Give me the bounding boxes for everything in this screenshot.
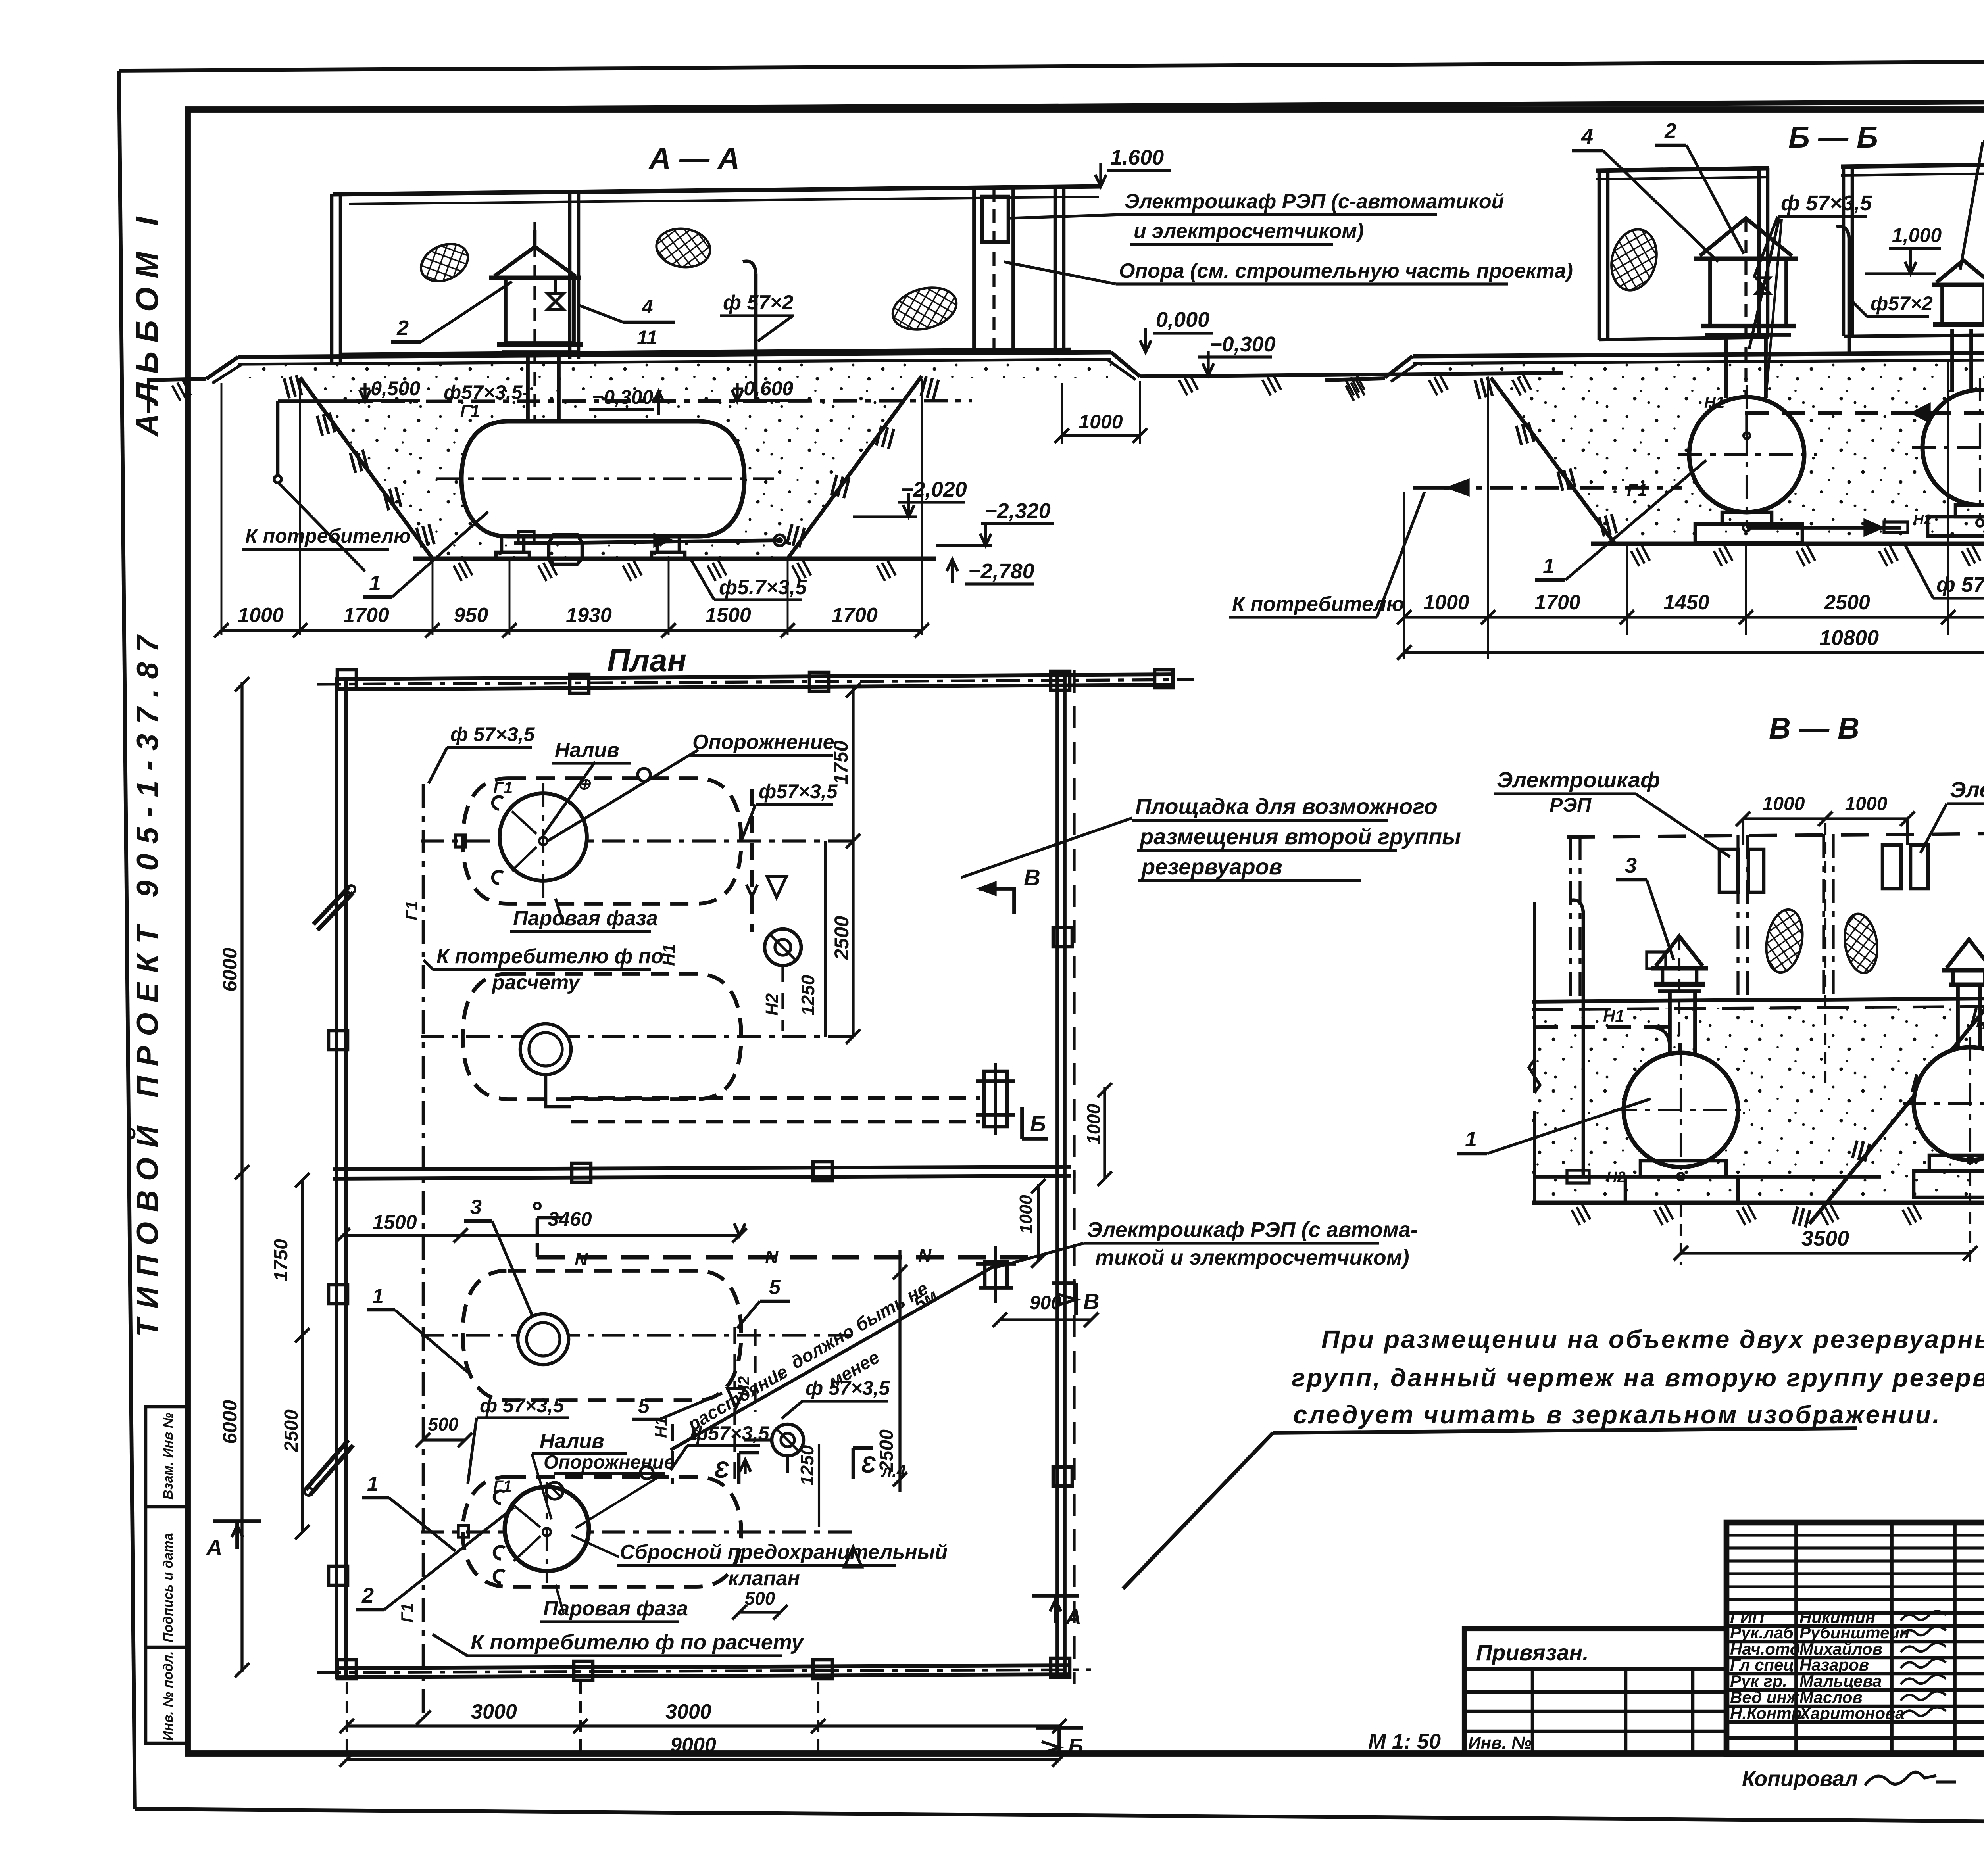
plan tank 1 capsule xyxy=(463,778,741,904)
plan fence top xyxy=(335,674,1173,679)
plan dim 1000 right lower xyxy=(1037,1184,1040,1262)
B-B flange left xyxy=(1701,324,1796,328)
svg-text:11: 11 xyxy=(637,326,657,349)
B-B pipe H2 xyxy=(1747,526,1901,530)
svg-text:М 1: 50: М 1: 50 xyxy=(1368,1730,1441,1753)
svg-text:3000: 3000 xyxy=(665,1700,711,1723)
svg-text:Паровая фаза: Паровая фаза xyxy=(543,1597,688,1620)
svg-text:3: 3 xyxy=(470,1196,482,1219)
B-B pad left bevel xyxy=(1385,356,1413,378)
A-A ground pad top xyxy=(238,352,1111,357)
svg-text:1: 1 xyxy=(372,1285,384,1308)
svg-text:1: 1 xyxy=(1543,554,1555,578)
svg-text:−2,320: −2,320 xyxy=(984,499,1051,523)
plan fence posts xyxy=(570,674,589,693)
svg-text:следует читать в зеркальном и: следует читать в зеркальном изображении. xyxy=(1293,1400,1941,1429)
svg-text:Рук.лаб: Рук.лаб xyxy=(1730,1623,1794,1642)
svg-text:Инв. № подл.: Инв. № подл. xyxy=(161,1651,176,1741)
svg-text:В — В: В — В xyxy=(1769,712,1859,745)
svg-text:Мальцева: Мальцева xyxy=(1799,1672,1882,1690)
A-A fence top rail xyxy=(333,186,1101,194)
svg-text:Г1: Г1 xyxy=(493,778,513,797)
A-A pit drain pipe xyxy=(514,540,782,543)
A-A vent hatch cap xyxy=(494,247,575,276)
plan H2 pipe lower vertical xyxy=(754,1329,756,1412)
svg-text:2: 2 xyxy=(396,316,409,340)
svg-text:ф57×3,5-: ф57×3,5- xyxy=(444,381,529,403)
svg-text:2: 2 xyxy=(1664,119,1676,143)
svg-text:Н2: Н2 xyxy=(1913,511,1932,528)
plan dim 1000 fence right xyxy=(1103,1087,1106,1179)
B-B fence blob left xyxy=(1605,224,1663,295)
A-A wide support post xyxy=(972,188,976,354)
plan tank4 nozzles xyxy=(543,1528,551,1536)
svg-text:Электрошкаф: Электрошкаф xyxy=(1497,767,1660,792)
B-B flange right xyxy=(1933,322,1984,327)
A-A excavation right slope xyxy=(788,376,922,559)
B-B left fence xyxy=(1596,168,1769,171)
svg-text:1700: 1700 xyxy=(343,604,389,627)
B-B neck right xyxy=(1950,329,1954,392)
V-V tank 1 xyxy=(1624,1053,1738,1167)
A-A tank 1 capsule xyxy=(461,421,744,536)
svg-text:4: 4 xyxy=(1581,125,1593,148)
svg-text:К потребителю ф по: К потребителю ф по xyxy=(436,945,663,968)
B-B ground pad xyxy=(1413,351,1984,356)
svg-text:ф57×3,5: ф57×3,5 xyxy=(759,780,838,803)
title block privyazan table xyxy=(1464,1629,1726,1753)
svg-text:−2,020: −2,020 xyxy=(901,478,967,501)
A-A pipe G1 xyxy=(278,399,373,403)
B-B neck left xyxy=(1724,335,1728,398)
svg-text:Налив: Налив xyxy=(540,1430,604,1453)
plan dim 1750 right xyxy=(852,688,854,841)
A-A tank neck xyxy=(526,352,530,424)
svg-text:резервуаров: резервуаров xyxy=(1141,854,1282,879)
svg-text:N: N xyxy=(918,1245,932,1265)
svg-text:Назаров: Назаров xyxy=(1799,1655,1869,1674)
V-V small box on neck xyxy=(1647,952,1666,969)
svg-text:500: 500 xyxy=(745,1588,775,1609)
V-V neck mid xyxy=(1668,991,1672,1055)
V-V fence dashed top xyxy=(1567,833,1984,837)
svg-text:ТИПОВОЙ ПРОЕКТ 905-1-37.87: ТИПОВОЙ ПРОЕКТ 905-1-37.87 xyxy=(130,626,165,1337)
note leader diagonal xyxy=(1123,1433,1273,1589)
svg-text:1000: 1000 xyxy=(1083,1104,1104,1144)
plan fence right lower xyxy=(1055,1172,1059,1679)
plan leader oporozhnenie xyxy=(548,750,698,841)
V-V H1 right xyxy=(1980,1023,1984,1024)
svg-text:6000: 6000 xyxy=(219,948,241,992)
A-A pipe to consumer drop xyxy=(276,401,280,476)
V-V fence posts dash xyxy=(1569,836,1572,1000)
svg-text:А: А xyxy=(1065,1604,1081,1629)
svg-text:ф 57×3,5: ф 57×3,5 xyxy=(806,1377,890,1399)
plan tank 2 manhole xyxy=(520,1024,571,1075)
A-A soil stipple xyxy=(300,376,922,559)
plan tank 4 capsule xyxy=(463,1477,741,1587)
svg-text:ф 57×3,5: ф 57×3,5 xyxy=(480,1394,565,1417)
plan B marker bottom xyxy=(1057,1728,1061,1755)
V-V H2 line xyxy=(1534,1175,1881,1179)
V-V cabinets left pair xyxy=(1719,849,1738,892)
A-A tank axis xyxy=(436,477,774,480)
A-A crosshatch blob 3 xyxy=(888,281,961,336)
svg-text:План: План xyxy=(607,643,686,678)
plan H1 pipe upper xyxy=(750,789,754,932)
A-A valve on stack xyxy=(548,294,563,309)
svg-text:1000: 1000 xyxy=(1079,411,1123,433)
plan gate upper xyxy=(313,887,349,924)
svg-text:ф 57×2: ф 57×2 xyxy=(723,291,794,314)
V-V H1 left xyxy=(1534,1027,1668,1027)
svg-text:Налив: Налив xyxy=(555,739,619,762)
svg-text:6000: 6000 xyxy=(219,1400,241,1444)
svg-text:1000: 1000 xyxy=(1763,793,1805,814)
svg-text:Привязан.: Привязан. xyxy=(1476,1640,1589,1665)
svg-text:900: 900 xyxy=(1030,1292,1061,1313)
V-V deep slope diagonal xyxy=(1809,1006,1984,1224)
A-A pad right bevel xyxy=(1111,352,1140,376)
svg-text:1000: 1000 xyxy=(1845,793,1888,814)
svg-text:В: В xyxy=(1024,865,1040,891)
plan fence middle xyxy=(333,1167,1071,1169)
A-A ground line right xyxy=(1140,373,1563,376)
title block left columns xyxy=(1794,1523,1798,1754)
svg-text:2: 2 xyxy=(361,1584,374,1607)
left margin cells xyxy=(146,1407,188,1743)
plan dim 1250 right xyxy=(824,841,827,1037)
svg-text:и электросчетчиком): и электросчетчиком) xyxy=(1134,220,1364,243)
svg-text:2500: 2500 xyxy=(831,916,853,960)
inner frame xyxy=(188,109,1984,1753)
svg-text:Подпись и дата: Подпись и дата xyxy=(161,1533,176,1642)
plan tank 2 capsule xyxy=(463,974,741,1099)
B-B left slope xyxy=(1491,378,1615,544)
svg-text:1000: 1000 xyxy=(1016,1195,1036,1234)
plan dim 1250 lower xyxy=(818,1444,820,1527)
svg-text:4: 4 xyxy=(642,296,653,318)
plan tank 2 axis xyxy=(421,1035,857,1038)
plan REP valve lower xyxy=(772,1424,804,1456)
B-B tank 1 xyxy=(1689,397,1804,512)
svg-text:−2,780: −2,780 xyxy=(968,559,1034,583)
A-A vent hatch box xyxy=(506,278,574,343)
plan dim 1500 xyxy=(343,1234,461,1237)
svg-text:клапан: клапан xyxy=(728,1567,800,1590)
plan tank 4 manhole xyxy=(505,1487,589,1571)
svg-text:размещения второй группы: размещения второй группы xyxy=(1139,824,1461,849)
A-A dim 1000 right xyxy=(1061,383,1063,444)
title block main table xyxy=(1726,1523,1984,1754)
A-A tank supports xyxy=(502,536,524,552)
plan V marker lower xyxy=(1074,1283,1078,1315)
plan dim 500 upper xyxy=(423,1438,465,1441)
V-V cabinets right pair xyxy=(1882,845,1901,889)
svg-text:500: 500 xyxy=(428,1414,459,1434)
svg-text:Гл спец: Гл спец xyxy=(1730,1655,1794,1674)
svg-text:1250: 1250 xyxy=(797,1445,817,1486)
svg-text:Г1: Г1 xyxy=(460,401,480,420)
svg-text:Паровая фаза: Паровая фаза xyxy=(513,907,658,930)
svg-text:Рубинштейн: Рубинштейн xyxy=(1799,1623,1909,1642)
plan fence right xyxy=(1055,674,1059,1172)
svg-text:2500: 2500 xyxy=(876,1429,897,1472)
svg-text:Харитонова: Харитонова xyxy=(1799,1704,1904,1722)
svg-text:1500: 1500 xyxy=(705,604,751,627)
svg-text:1: 1 xyxy=(369,571,381,595)
A-A fence panel bottom xyxy=(341,349,1071,354)
V-V vent cap mid xyxy=(1656,936,1703,966)
svg-text:1250: 1250 xyxy=(798,975,818,1016)
plan H2 pipe upper xyxy=(781,966,784,1031)
B-B pipe H1 xyxy=(1745,411,1984,415)
svg-text:1500: 1500 xyxy=(373,1211,417,1233)
svg-text:А: А xyxy=(206,1535,222,1560)
plan fence bottom xyxy=(335,1665,1071,1668)
svg-text:1930: 1930 xyxy=(566,604,612,627)
svg-text:2500: 2500 xyxy=(281,1409,302,1452)
A-A small nozzle under tank xyxy=(549,535,582,564)
svg-text:При размещении на объекте двух: При размещении на объекте двух резервуар… xyxy=(1321,1325,1984,1354)
svg-text:1700: 1700 xyxy=(832,604,878,627)
plan tank2 drop pipe xyxy=(546,1075,571,1107)
svg-text:Инв. №: Инв. № xyxy=(1468,1733,1532,1753)
svg-text:Ɛ: Ɛ xyxy=(861,1452,876,1478)
plan tank 3 capsule xyxy=(463,1271,741,1400)
svg-text:1450: 1450 xyxy=(1663,591,1709,614)
svg-text:1,000: 1,000 xyxy=(1892,224,1942,246)
plan drain triangle lower xyxy=(727,1388,745,1407)
svg-text:Взам. Инв №: Взам. Инв № xyxy=(161,1413,176,1500)
B-B candle pipe xyxy=(1848,238,1851,353)
plan dim 3460 xyxy=(461,1234,740,1237)
svg-text:К потребителю: К потребителю xyxy=(245,525,411,547)
plan N cable drop xyxy=(536,1218,539,1257)
svg-text:3: 3 xyxy=(1625,854,1637,878)
plan dim 2500 right xyxy=(852,841,854,1037)
svg-text:Г1: Г1 xyxy=(493,1478,512,1495)
V-V fence blobs xyxy=(1762,907,1807,975)
svg-text:РЭП: РЭП xyxy=(1550,794,1592,816)
svg-text:ф57×2: ф57×2 xyxy=(1871,292,1933,315)
svg-text:1750: 1750 xyxy=(271,1239,292,1281)
plan dim 500 lower xyxy=(740,1611,781,1613)
svg-text:1: 1 xyxy=(367,1473,379,1496)
svg-text:Электрошкаф РЭП (с автома-: Электрошкаф РЭП (с автома- xyxy=(1087,1218,1418,1242)
V-V H1 elbow xyxy=(1651,1027,1670,1047)
plan fence left xyxy=(335,679,338,1677)
svg-text:Электрошкаф РЭП (с-автоматикой: Электрошкаф РЭП (с-автоматикой xyxy=(1125,190,1504,213)
svg-text:Н1: Н1 xyxy=(1704,394,1724,411)
V-V flange mid xyxy=(1654,982,1705,987)
svg-text:Рук гр.: Рук гр. xyxy=(1730,1672,1787,1690)
plan tank 1 manhole xyxy=(500,793,587,881)
plan N cable line xyxy=(537,1255,1040,1260)
svg-text:3500: 3500 xyxy=(1801,1227,1849,1250)
B-B vent box left xyxy=(1710,259,1786,326)
svg-text:0,000: 0,000 xyxy=(1156,308,1209,332)
V-V left candle xyxy=(1582,912,1585,1177)
V-V pit floor xyxy=(1532,1201,1984,1205)
B-B tank supports xyxy=(1722,512,1772,524)
plan H1 pipe lower xyxy=(671,1424,674,1484)
B-B pit floor xyxy=(1591,542,1984,546)
svg-text:Копировал: Копировал xyxy=(1742,1767,1858,1791)
B-B soil stipple xyxy=(1413,359,1984,544)
A-A ground line left xyxy=(147,379,206,380)
svg-text:Г1: Г1 xyxy=(402,901,421,920)
A-A electrical cabinet xyxy=(982,196,1008,242)
svg-text:групп, данный чертеж на вторую: групп, данный чертеж на вторую группу ре… xyxy=(1292,1363,1984,1392)
V-V ground line xyxy=(1532,998,1984,1002)
plan leader naliv xyxy=(543,762,595,835)
svg-text:1750: 1750 xyxy=(830,741,852,785)
plan pipe to fence fitting upper xyxy=(571,1096,980,1100)
plan G1 pipe vertical xyxy=(422,784,425,1718)
svg-text:1700: 1700 xyxy=(1534,591,1580,614)
plan triangle up arrow lower xyxy=(844,1547,862,1567)
svg-text:2500: 2500 xyxy=(1824,591,1870,614)
B-B right fence xyxy=(1841,163,1984,167)
V-V dims 1000 1000 xyxy=(1743,817,1907,820)
plan tank 3 axis xyxy=(421,1334,857,1336)
svg-text:Площадка для возможного: Площадка для возможного xyxy=(1135,794,1438,819)
A-A excavation left slope xyxy=(300,378,433,559)
A-A k potrebitelyu leader xyxy=(278,482,365,571)
plan A marker right xyxy=(1054,1596,1057,1623)
B-B dimension chain xyxy=(1404,616,1984,618)
svg-text:В: В xyxy=(1083,1289,1099,1314)
plan dim 2500 lower right xyxy=(898,1250,901,1492)
svg-text:ф 57×3,5: ф 57×3,5 xyxy=(450,723,535,745)
page outer border xyxy=(119,60,1984,71)
svg-text:Б: Б xyxy=(1068,1734,1083,1758)
B-B valve left stack xyxy=(1756,278,1770,294)
svg-text:Электрошкаф: Электрошкаф xyxy=(1950,777,1984,802)
plan left dim 6000 chains xyxy=(240,682,243,1672)
B-B ground left xyxy=(1325,378,1385,380)
plan tank 3 manhole xyxy=(518,1314,569,1365)
B-B dim extension lines xyxy=(1403,492,1405,659)
svg-text:Н2: Н2 xyxy=(1606,1169,1626,1186)
svg-text:1000: 1000 xyxy=(1423,591,1469,614)
A-A fence posts xyxy=(330,194,334,363)
svg-text:Опорожнение: Опорожнение xyxy=(544,1452,675,1473)
V-V saddles xyxy=(1640,1161,1726,1177)
svg-text:тикой и электросчетчиком): тикой и электросчетчиком) xyxy=(1095,1246,1409,1269)
A-A pad stipple strip xyxy=(246,360,1111,378)
plan tank 4 axis xyxy=(421,1530,857,1533)
B-B vent cap right xyxy=(1936,260,1984,282)
svg-text:ф5.7×3,5: ф5.7×3,5 xyxy=(719,576,807,599)
B-B tank 2 xyxy=(1922,390,1984,505)
svg-text:1000: 1000 xyxy=(238,604,284,627)
ploshchadka leader xyxy=(961,818,1132,878)
svg-text:Н2: Н2 xyxy=(762,993,782,1016)
plan tank 1 axis xyxy=(421,839,857,842)
svg-text:9000: 9000 xyxy=(670,1734,716,1757)
svg-text:К потребителю ф по расчету: К потребителю ф по расчету xyxy=(471,1630,804,1654)
plan fence fitting upper xyxy=(984,1071,1007,1127)
svg-text:1.600: 1.600 xyxy=(1110,146,1164,169)
plan V marker upper xyxy=(1012,887,1016,914)
A-A vent candle pipe f57x2 xyxy=(754,274,758,401)
plan fence fitting lower xyxy=(985,1262,1007,1288)
V-V dim 3500 xyxy=(1680,1205,1682,1265)
V-V right stack xyxy=(1947,939,1984,968)
plan dim 900 xyxy=(1000,1318,1091,1321)
svg-text:950: 950 xyxy=(454,604,488,627)
svg-text:3000: 3000 xyxy=(471,1700,517,1723)
svg-text:N: N xyxy=(575,1249,588,1269)
B-B pipe G1 xyxy=(1444,486,1682,490)
svg-text:Б — Б: Б — Б xyxy=(1788,121,1878,154)
svg-text:N: N xyxy=(765,1247,779,1267)
A-A pad left bevel xyxy=(206,357,238,379)
A-A dimension chain xyxy=(221,383,223,635)
svg-text:Опорожнение: Опорожнение xyxy=(692,731,834,754)
A-A pit floor xyxy=(413,557,936,561)
plan gate lower xyxy=(306,1440,348,1490)
plan left dim 1750-2500 lower xyxy=(301,1179,304,1532)
plan drain triangle upper xyxy=(767,876,786,897)
plan REP valve upper xyxy=(765,929,801,966)
plan bottom dims xyxy=(346,1682,348,1753)
svg-text:Ɛ: Ɛ xyxy=(714,1457,729,1483)
svg-text:Н.Контр.: Н.Контр. xyxy=(1730,1704,1806,1722)
svg-text:1: 1 xyxy=(1465,1127,1477,1151)
V-V tank 2 xyxy=(1914,1047,1984,1160)
A-A hatch flange xyxy=(497,342,583,347)
svg-text:Н1: Н1 xyxy=(652,1417,670,1438)
B-B vent cap left xyxy=(1700,218,1792,256)
svg-text:ф 57×3,5: ф 57×3,5 xyxy=(1936,573,1984,597)
plan oporozhnenie fitting xyxy=(546,1482,563,1499)
svg-text:−0,300: −0,300 xyxy=(592,386,654,408)
svg-text:Сбросной предохранительный: Сбросной предохранительный xyxy=(620,1541,948,1564)
plan tank1 nozzles xyxy=(539,837,547,845)
plan A marker left xyxy=(235,1521,239,1549)
plan diagonal note line xyxy=(671,1266,994,1450)
svg-text:Н1: Н1 xyxy=(659,944,679,966)
svg-text:5: 5 xyxy=(769,1276,781,1299)
svg-text:−0,300: −0,300 xyxy=(1209,332,1276,356)
svg-text:А — А: А — А xyxy=(648,142,740,175)
V-V left ext line with break xyxy=(1533,902,1536,1093)
B-B dim 10800 xyxy=(1404,651,1984,654)
svg-text:5: 5 xyxy=(638,1395,650,1418)
svg-text:Г1: Г1 xyxy=(1627,480,1647,500)
A-A crosshatch blob 1 xyxy=(415,237,474,288)
svg-text:10800: 10800 xyxy=(1819,626,1879,650)
frame top double line right segment xyxy=(188,100,1984,109)
V-V soil stipple xyxy=(1532,1006,1984,1202)
A-A crosshatch blob 2 xyxy=(654,225,713,271)
plan B marker upper xyxy=(1020,1107,1024,1139)
svg-text:Г1: Г1 xyxy=(398,1603,416,1623)
svg-text:Б: Б xyxy=(1030,1111,1046,1136)
svg-text:Опора (см. строительную часть: Опора (см. строительную часть проекта) xyxy=(1119,259,1573,282)
svg-text:Н1: Н1 xyxy=(1603,1006,1624,1025)
svg-text:ф 57×3,5: ф 57×3,5 xyxy=(1781,191,1872,215)
